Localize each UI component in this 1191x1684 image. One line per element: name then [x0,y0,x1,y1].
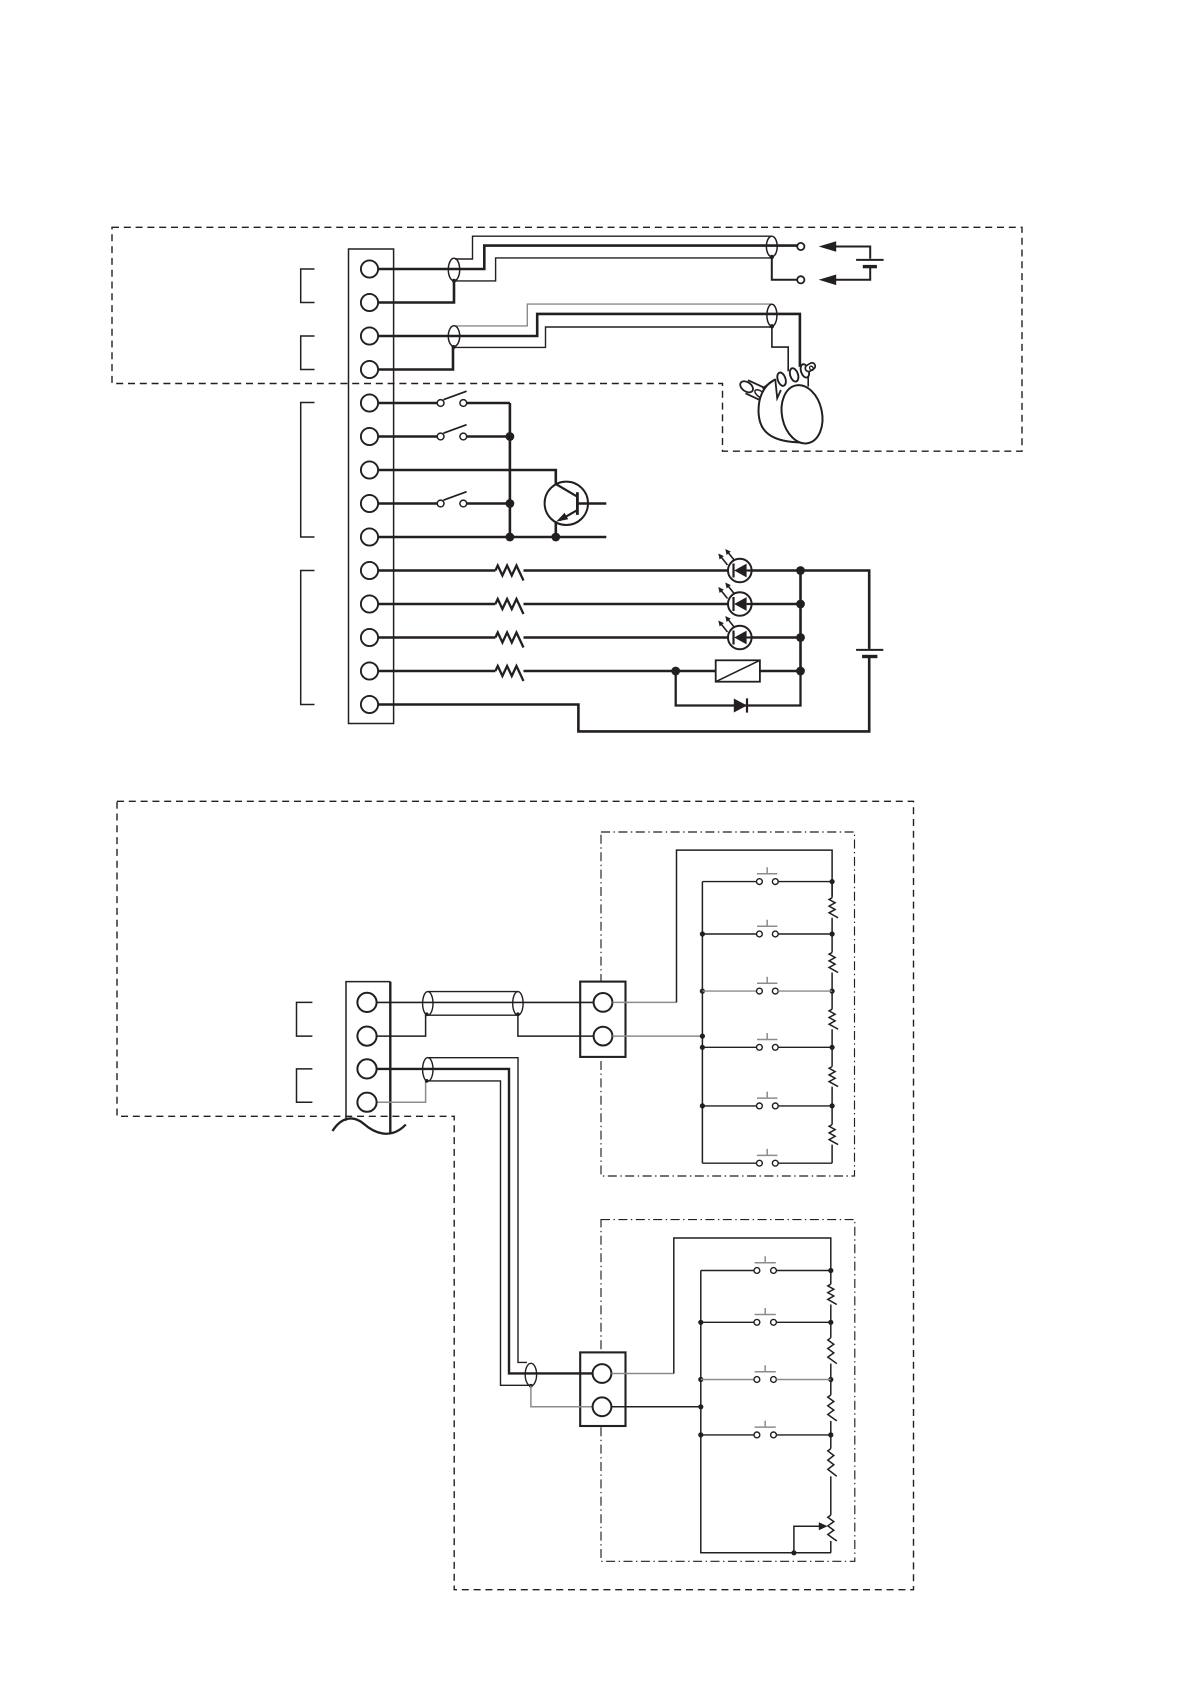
junction dot bus row9 [506,533,515,542]
bracket group pins 10-14 [301,571,315,705]
pushbutton S10 [754,1421,776,1438]
wire TB2-4 shield lead [377,1082,426,1103]
terminal TB1-3 [361,327,378,344]
junction dot relay right [796,667,805,676]
wire J2-2 to RB2 common [611,1406,700,1408]
pushbutton S1 [757,867,779,884]
terminal TB1-5 [361,394,378,411]
wire W4 shield to J2-2 [531,1386,594,1407]
pushbutton S7 [754,1256,776,1273]
bracket TB2 pins 1-2 [297,1002,313,1036]
terminal TB1-12 [361,629,378,646]
wire resistor R4 to relay K1 [524,670,716,673]
wire battery BT1 positive lead [836,247,871,259]
cable W1 sheath bottom line [455,258,772,281]
wire LED D2 to right bus [752,603,801,606]
terminal TB2-3 [357,1059,376,1078]
wire switch SW2 to bus [467,435,510,438]
battery BT1 short plate [863,265,877,268]
junction dot RB1 right bus [830,1103,835,1108]
wire TB2-2 shield left [377,1015,426,1036]
plug terminal P1 cold [797,276,804,283]
junction dot RB1 left bus [700,1034,705,1039]
wire pin9 emitter row [378,536,606,539]
potentiometer VR2 track [828,1515,837,1541]
junction dot right bus D3 [796,633,805,642]
wire RB2 right bus segment [830,1271,832,1285]
junction dot RB2 bottom wiper [791,1550,796,1555]
cable W2 left end ellipse [448,326,459,347]
wire RB1 row S4 left [702,1046,756,1048]
wire pin13 to resistor R4 [378,670,495,673]
resistor R2 [495,599,523,614]
junction dot cable W1 right shield [770,255,774,259]
bracket TB2 pins 3-4 [297,1069,313,1102]
connector J2 pin2 [593,1397,612,1416]
wire RB2 row S7 left [701,1270,754,1272]
pushbutton S6 [757,1149,779,1166]
wire relay K1 to right bus [760,670,801,673]
connector J1 pin1 [594,993,613,1012]
terminal strip TB1 body [349,249,394,724]
terminal TB2-1 [357,993,376,1012]
terminal TB1-4 [361,361,378,378]
cable W1 right end ellipse [766,236,777,256]
wire resistor to LED D1 [524,569,729,572]
junction dot RB1 right bus [830,1045,835,1050]
wire RB2 row S10 right [776,1434,830,1436]
bracket group pins 3-4 [301,336,315,370]
wire W3 shield to J1-2 [518,1015,594,1036]
wire RB1 right bus segment [831,882,833,934]
wire J1-1 to RB1 feed [612,1001,676,1003]
junction dot RB2 right bus [828,1268,833,1273]
wire RB2 right bus segment [830,1305,832,1338]
wire RB2 row S9 left [701,1379,754,1381]
resistor R11 [828,1338,837,1364]
wire pin1 to cable W1 conductor [378,246,797,269]
resistor R13 [828,1449,837,1477]
LED D3 [718,616,751,649]
junction dot cable W2 right shield [770,324,774,328]
wire RB1 right bus segment [831,1047,833,1106]
dash-dot remote box RB1 [601,832,855,1176]
switch SW3 contact left [437,500,444,507]
wire switch common bus [509,403,512,537]
connector J1 pin2 [594,1027,613,1046]
terminal TB1-9 [361,528,378,545]
wire TB2-1 to J1-1 conductor [377,1001,594,1003]
wire W4 shield run [427,1081,530,1385]
wire RB2 row S9 right [776,1379,830,1381]
wire RB2 row S7 right [776,1270,830,1272]
cable W1 left end ellipse [448,258,459,281]
switch SW2 contact left [437,433,444,440]
wire top LED row to battery BT2 [801,571,870,649]
wire RB1 row S2 left [702,933,756,935]
cable W3 left ellipse [423,992,433,1016]
wire RB1 row S6 left [702,1162,756,1164]
junction dot RB1 right bus [830,879,835,884]
wire battery BT2 return to pin14 [378,658,869,732]
junction dot RB1 left bus [700,1045,705,1050]
wire pin-to-switch SW1 [378,402,437,405]
dashed enclosure box (bottom unit) [117,801,914,1589]
junction dot relay left [671,667,680,676]
plug terminal P1 hot [797,243,804,250]
switch SW1 contact left [437,400,444,407]
switch SW3 contact right [460,500,467,507]
wire RB1 row S4 right [778,1046,832,1048]
wire RB1 right bus segment [831,991,833,1047]
RB2 left bus [701,1271,831,1553]
terminal TB1-11 [361,595,378,612]
cable W4 bottom ellipse [525,1363,536,1386]
pushbutton S2 [757,920,779,937]
cable W2 sheath top line [455,304,772,326]
terminal TB2-2 [357,1027,376,1046]
cable W2 right end ellipse [767,304,777,326]
wire pin to resistor row D2 [378,603,495,606]
wire J2-1 to RB2 feed [611,1373,673,1375]
wire resistor to LED D3 [524,636,729,639]
terminal TB1-1 [361,260,378,277]
resistor R5 [829,898,838,918]
wire RB2 right bus segment [830,1421,832,1449]
junction dot cable W1 left shield [452,279,456,283]
battery BT1 long plate [856,259,884,261]
pushbutton S9 [754,1365,776,1382]
wire switch SW1 to bus [467,402,510,405]
junction dot RB1 right bus [830,989,835,994]
junction dot RB2 left bus [698,1432,703,1437]
arrow into P1 cold [819,275,837,286]
potentiometer VR2 wiper [794,1526,820,1553]
cable W4 top ellipse [423,1058,433,1082]
junction dot RB1 left bus [700,989,705,994]
wire cable W1 shield to plug terminal [772,257,797,280]
wire RB1 right bus segment [831,934,833,991]
resistor R3 [495,633,523,648]
junction dot W4 bottom shield [529,1384,533,1388]
connector J1 body [580,982,625,1057]
junction dot RB2 left bus [698,1320,703,1325]
wire cable W2 shield to pot lug [772,326,788,373]
junction dot W3 left shield [425,1012,429,1016]
junction dot RB1 left bus [700,931,705,936]
junction dot W4 top shield [425,1079,429,1083]
wire RB1 row S5 right [778,1105,832,1107]
switch SW3 lever [443,492,466,501]
wire LED D3 to right bus [752,636,801,639]
wire LED D1 to right bus [752,569,801,572]
battery BT2 long plate [856,649,883,651]
cable W3 sheath [428,992,518,1016]
bracket group pins 5-9 [301,403,315,538]
terminal TB1-2 [361,294,378,311]
wire RB1 right bus segment [831,1106,833,1163]
resistor R8 [829,1067,838,1087]
wire RB1 row S6 right [778,1162,832,1164]
junction dot bus row6 [506,432,515,441]
wire pin-to-switch SW2 [378,435,437,438]
pushbutton S4 [757,1033,779,1050]
junction dot RB2 right bus [828,1320,833,1325]
wire RB2 right bus segment [830,1476,832,1515]
wire RB2 row S10 left [701,1434,754,1436]
diode D4 [734,699,747,713]
wire switch SW3 to bus [467,502,510,505]
wire pin to resistor row D3 [378,636,495,639]
pushbutton S3 [757,977,779,994]
terminal TB1-13 [361,662,378,679]
switch SW2 lever [443,425,466,434]
wire RB1 row S3 left [702,990,756,992]
connector J2 body [580,1352,625,1426]
junction dot RB2 left bus [698,1377,703,1382]
switch SW1 contact right [460,400,467,407]
junction dot emitter [551,533,560,542]
wire pin-to-switch SW3 [378,502,437,505]
wire RB1 row S1 left [702,881,756,883]
wire RB1 row S2 right [778,933,832,935]
wire TB2-3 to J2-1 conductor [377,1069,594,1374]
resistor R10 [828,1284,837,1304]
junction dot cable W2 left shield [452,345,456,349]
junction dot RB1 left bus [700,1103,705,1108]
terminal TB1-10 [361,562,378,579]
cable W1 sheath top line [455,236,772,259]
wire pin3 to cable W2 conductor [378,314,800,373]
LED D1 [718,549,751,582]
resistor R9 [829,1125,838,1145]
resistor R4 [495,666,523,681]
transistor Q1 [545,482,607,537]
wire RB1 row S3 right [778,990,832,992]
relay K1 coil [716,660,760,681]
connector J2 pin1 [593,1364,612,1383]
switch SW2 contact right [460,433,467,440]
bracket group pins 1-2 [301,269,315,303]
wire RB1 row S5 left [702,1105,756,1107]
terminal strip TB2 break squiggle [333,1118,406,1133]
wire RB2 row S8 right [776,1321,830,1323]
terminal TB2-4 [357,1093,376,1112]
wire pin4 riser [378,347,453,369]
RB1 left bus [701,882,703,1164]
LED D2 [718,583,751,616]
junction dot right bus D1 [796,566,805,575]
wire resistor to LED D2 [524,603,729,606]
junction dot RB2 right bus [828,1432,833,1437]
resistor R1 [495,566,523,581]
wire RB2 row S8 left [701,1321,754,1323]
potentiometer VR1 [738,362,828,448]
junction dot RB2 left bus [698,1404,703,1409]
wire RB2 right bus segment [830,1364,832,1395]
junction dot right bus D2 [796,600,805,609]
wire pin to resistor row D1 [378,569,495,572]
resistor R7 [829,1009,838,1029]
resistor R12 [828,1395,837,1421]
junction dot RB2 right bus [828,1377,833,1382]
pushbutton S5 [757,1092,779,1109]
wire pin2 riser [378,281,454,303]
dash-dot remote box RB2 [601,1220,855,1562]
cable W2 sheath bottom line [455,327,772,347]
cable W4 sheath top line [428,1058,527,1363]
pushbutton S8 [754,1308,776,1325]
resistor R6 [829,953,838,973]
cable W3 right ellipse [513,992,523,1016]
junction dot W3 right shield [516,1012,520,1016]
wire LED right bus [799,571,802,672]
battery BT2 short plate [862,655,877,658]
wire battery BT1 negative lead [836,268,871,280]
arrow into P1 hot [819,241,837,252]
junction dot RB1 right bus [830,931,835,936]
terminal TB1-14 [361,696,378,713]
dashed enclosure box (top unit) [112,227,1022,451]
RB1 right bus [831,882,833,897]
terminal TB1-7 [361,461,378,478]
wire J1-2 to RB1 common [612,1035,702,1037]
wire RB1 row S1 right [778,881,832,883]
switch SW1 lever [443,391,466,400]
terminal TB1-6 [361,428,378,445]
wire diode bypass loop [676,671,801,706]
terminal strip TB2 body [347,982,390,1126]
wire pin7 to transistor collector [378,470,556,484]
terminal TB1-8 [361,495,378,512]
junction dot bus row8 [506,499,515,508]
